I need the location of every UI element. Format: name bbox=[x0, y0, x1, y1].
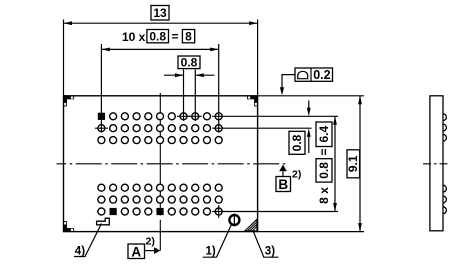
horizontal centerline (datum B axis) bbox=[57, 163, 286, 165]
svg-text:2): 2) bbox=[146, 236, 155, 248]
svg-text:2): 2) bbox=[292, 168, 301, 180]
solder ball row 6 bbox=[98, 205, 222, 218]
svg-text:1): 1) bbox=[206, 245, 216, 257]
leader 3) bbox=[254, 232, 279, 257]
solder ball row 1 bbox=[98, 113, 222, 120]
dimension 10x0.8=8 line with arrows bbox=[101, 48, 218, 50]
leader 4) bbox=[74, 224, 102, 257]
dimension 10x0.8=8 extension line col1 bbox=[100, 44, 102, 133]
datum A triangle bbox=[154, 247, 160, 254]
dimension 13 line with arrows bbox=[64, 22, 258, 24]
ball callout circle bbox=[229, 215, 239, 225]
svg-text:B: B bbox=[278, 177, 288, 192]
solder ball row 5 bbox=[98, 196, 222, 203]
value box 0.8 (rotated) bbox=[316, 159, 332, 182]
pitch 0.8 dimension line right part bbox=[195, 74, 214, 76]
svg-text:10 x: 10 x bbox=[122, 30, 146, 44]
datum B triangle bbox=[279, 165, 287, 172]
leader row2 bbox=[212, 127, 311, 129]
dimension 13 extension line right bbox=[257, 20, 259, 96]
row pitch 0.8 dimension line bbox=[308, 101, 310, 110]
dimension 0.8 value box bbox=[147, 30, 169, 43]
svg-text:8: 8 bbox=[185, 30, 192, 44]
side view solder bumps bbox=[443, 114, 446, 214]
pitch 0.8 extension line col8 bbox=[183, 70, 185, 121]
svg-text:4): 4) bbox=[75, 245, 85, 257]
datum A box bbox=[128, 244, 145, 259]
svg-text:0.8: 0.8 bbox=[149, 30, 166, 44]
dim 6.4 line with arrows bbox=[334, 116, 336, 211]
svg-text:3): 3) bbox=[265, 245, 275, 257]
value box 6.4 (rotated) bbox=[316, 122, 332, 147]
corner index mark top-right bbox=[247, 96, 258, 100]
vertical centerline (datum A axis) bbox=[159, 93, 161, 251]
svg-text:6.4: 6.4 bbox=[317, 126, 331, 143]
dim 9.1 line with arrows bbox=[359, 96, 361, 232]
svg-text:13: 13 bbox=[153, 6, 167, 20]
feature control frame leader arrow bbox=[282, 75, 295, 89]
datum B box bbox=[276, 177, 291, 192]
top edge extension line bbox=[258, 95, 364, 97]
crosshair ticks row2 col1 bbox=[95, 127, 108, 129]
svg-text:8 x: 8 x bbox=[317, 187, 331, 204]
value box 9.1 (rotated) bbox=[347, 150, 360, 178]
solder ball row 3 bbox=[98, 137, 222, 144]
package body outline (bottom view) bbox=[64, 96, 258, 232]
dimension 13 value box bbox=[151, 6, 169, 21]
leader row6 bbox=[212, 211, 338, 213]
side view body bbox=[430, 96, 443, 231]
corner index mark bottom-left bbox=[64, 228, 75, 232]
bottom edge extension line bbox=[258, 231, 364, 233]
leader 1) bbox=[203, 225, 232, 258]
svg-text:9.1: 9.1 bbox=[346, 155, 360, 172]
pin-1 flag symbol bbox=[97, 218, 110, 225]
side view centerline bbox=[423, 163, 450, 165]
svg-text:0.8: 0.8 bbox=[290, 134, 304, 151]
surface profile symbol bbox=[298, 71, 308, 78]
svg-text:A: A bbox=[131, 244, 141, 259]
solder ball row 2 bbox=[98, 125, 222, 132]
svg-text:0.8: 0.8 bbox=[181, 56, 198, 70]
pitch 0.8 value box bbox=[178, 56, 200, 69]
svg-text:=: = bbox=[317, 148, 331, 155]
corner index mark top-left bbox=[64, 96, 75, 100]
svg-text:=: = bbox=[172, 30, 179, 44]
dimension 13 extension line left bbox=[63, 20, 65, 96]
row pitch 0.8 value box (rotated) bbox=[289, 131, 305, 154]
pitch 0.8 dimension line left part bbox=[164, 74, 184, 76]
chamfer triangle hatched bbox=[245, 219, 257, 231]
pitch 0.8 extension line col9 bbox=[194, 70, 196, 121]
svg-text:0.8: 0.8 bbox=[317, 162, 331, 179]
dimension 8 value box bbox=[182, 30, 194, 43]
leader row1 bbox=[212, 115, 338, 117]
solder ball row 4 bbox=[98, 184, 222, 191]
dimension 10x0.8=8 extension line col11 bbox=[218, 44, 220, 133]
feature control frame box bbox=[295, 68, 333, 81]
svg-text:0.2: 0.2 bbox=[313, 68, 330, 82]
